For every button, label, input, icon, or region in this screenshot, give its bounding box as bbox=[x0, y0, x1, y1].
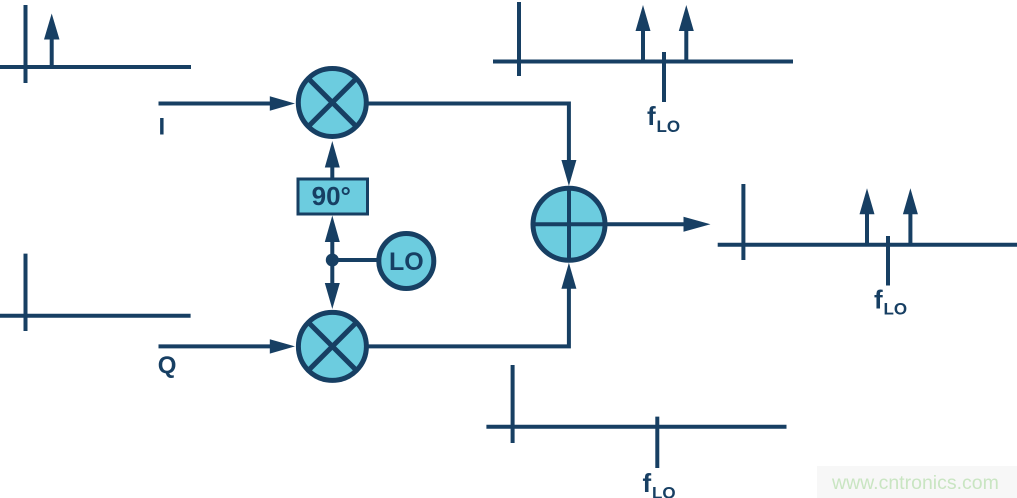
svg-text:90°: 90° bbox=[312, 181, 351, 211]
spectrum axes: RF output (right) vertical axis bbox=[741, 184, 745, 260]
node label I bbox=[159, 114, 166, 141]
spectrum axes: I-mixer output (top-middle) horizontal axis bbox=[493, 60, 793, 64]
wire: Q input into bottom mixer bbox=[159, 339, 296, 353]
svg-text:www.cntronics.com: www.cntronics.com bbox=[831, 472, 999, 494]
watermark background bbox=[817, 466, 1017, 498]
local oscillator LO bbox=[379, 234, 434, 289]
wire: 90deg box output up into mixer M1 LO port bbox=[325, 141, 340, 179]
svg-text:LO: LO bbox=[884, 300, 908, 319]
impulse: right lower sideband bbox=[860, 188, 875, 245]
svg-text:I: I bbox=[159, 114, 166, 141]
label fLO (bottom-middle) bbox=[643, 468, 676, 498]
svg-text:f: f bbox=[647, 101, 656, 131]
wire: bottom mixer output to summer (elbow) bbox=[366, 263, 576, 347]
tick: fLO on top-middle axis bbox=[662, 52, 666, 102]
wire: summer output bbox=[607, 217, 711, 232]
junction node (LO split) bbox=[326, 254, 339, 267]
impulse: top-middle upper sideband bbox=[679, 5, 694, 62]
phase shifter box 90deg bbox=[298, 179, 368, 214]
tick: fLO on right axis bbox=[886, 236, 890, 286]
mixer M2 (Q-channel multiplier) bbox=[298, 312, 366, 380]
wire: I input into top mixer bbox=[159, 96, 296, 110]
node label Q bbox=[158, 352, 177, 379]
svg-text:LO: LO bbox=[657, 117, 681, 136]
svg-text:LO: LO bbox=[389, 248, 424, 276]
svg-text:f: f bbox=[874, 285, 883, 315]
spectrum axes: Q-mixer output (bottom-middle) vertical axis bbox=[511, 365, 515, 443]
spectrum axes: Q-mixer output (bottom-middle) horizontal axis bbox=[486, 425, 786, 429]
svg-text:LO: LO bbox=[652, 484, 676, 498]
impulse: right upper sideband bbox=[903, 188, 918, 245]
summer U1 (combiner) bbox=[533, 188, 605, 260]
label fLO (top-middle) bbox=[647, 101, 680, 136]
label fLO (right) bbox=[874, 285, 907, 319]
svg-text:f: f bbox=[643, 468, 652, 498]
spectrum axes: I-input baseband (top-left) vertical axis bbox=[24, 5, 28, 83]
wire: top mixer output to summer (elbow) bbox=[366, 104, 576, 187]
svg-text:Q: Q bbox=[158, 352, 177, 379]
wire: LO junction up into 90deg box bbox=[325, 216, 340, 261]
spectrum axes: I-mixer output (top-middle) vertical axis bbox=[517, 2, 521, 76]
wire: LO junction down into mixer M2 LO port bbox=[325, 260, 340, 309]
spectrum axes: Q-input baseband (bottom-left) vertical axis bbox=[24, 254, 28, 331]
spectrum axes: Q-input baseband (bottom-left) horizontal axis bbox=[0, 314, 191, 318]
watermark text www.cntronics.com bbox=[831, 472, 999, 494]
impulse: top-middle lower sideband bbox=[636, 5, 651, 62]
impulse: I-input baseband tone bbox=[44, 14, 60, 68]
tick: fLO on bottom-middle axis bbox=[655, 417, 659, 468]
spectrum axes: I-input baseband (top-left) horizontal axis bbox=[0, 65, 191, 69]
spectrum axes: RF output (right) horizontal axis bbox=[718, 243, 1017, 247]
mixer M1 (I-channel multiplier) bbox=[298, 69, 366, 137]
wire: LO to junction bbox=[332, 258, 378, 262]
